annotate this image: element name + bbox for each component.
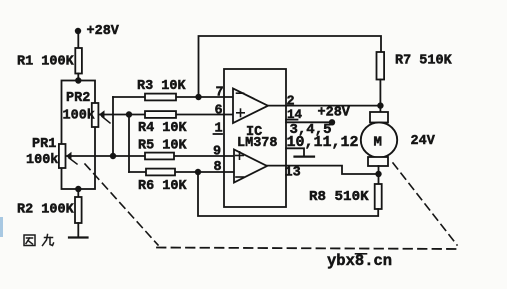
- svg-text:8: 8: [214, 160, 222, 175]
- svg-text:ybx8.cn: ybx8.cn: [327, 252, 392, 270]
- svg-text:100k: 100k: [26, 153, 58, 168]
- caption 图九 (Figure 9), hand-drawn CJK strokes: [24, 235, 54, 246]
- op-amp U1a (top): [233, 89, 268, 124]
- svg-text:R5 10K: R5 10K: [138, 139, 188, 154]
- potentiometer PR2: [63, 91, 99, 127]
- dashed mechanical link: left diagonal: [85, 164, 158, 245]
- resistor R2: [17, 197, 82, 223]
- node: output 2 / R7 / motor junction: [377, 102, 383, 108]
- wire R5 line: PR1 wiper to pin 9: [66, 155, 234, 157]
- wire R2 to ground: [77, 223, 79, 238]
- wire R4 line: PR2 wiper to pin 6: [99, 114, 233, 116]
- svg-text:LM378: LM378: [237, 136, 278, 151]
- wire R1 to node: [77, 74, 79, 81]
- PR1 wiper arrow: [66, 152, 77, 164]
- node: R1 / pot box top junction: [75, 77, 81, 83]
- wire R7 to motor node: [379, 80, 381, 113]
- svg-text:+28V: +28V: [87, 24, 120, 39]
- pin 1 label: [214, 122, 223, 137]
- pin 14 label: [286, 108, 303, 122]
- wire op-amp output pin 13 to motor bottom node: [267, 166, 379, 174]
- wire vertical branch to R6 line: [128, 115, 130, 173]
- ground (IC pins): [286, 148, 314, 156]
- resistor R3: [137, 79, 187, 100]
- wire +28V to R1: [77, 31, 79, 48]
- PR2 wiper arrow: [99, 110, 110, 123]
- svg-text:100k: 100k: [63, 109, 95, 124]
- svg-text:9: 9: [213, 145, 221, 160]
- svg-text:24V: 24V: [411, 134, 436, 149]
- resistor R5: [138, 139, 188, 160]
- dashed mechanical link: bottom run: [157, 248, 456, 250]
- svg-text:M: M: [374, 135, 382, 151]
- svg-text:R8 510K: R8 510K: [309, 189, 369, 205]
- resistor R8: [309, 184, 382, 209]
- scan artifact blue strip: [0, 217, 3, 237]
- op-amp U1b (bottom): [234, 150, 267, 183]
- svg-text:6: 6: [215, 104, 223, 119]
- svg-text:7: 7: [216, 86, 224, 101]
- IC label: [237, 125, 278, 151]
- node: +28V supply terminal (right): [329, 119, 335, 125]
- IC U1 LM378 package box: [224, 69, 286, 207]
- potentiometer PR1: [26, 137, 66, 168]
- node: PR2 wiper / R6 branch junction: [126, 111, 132, 117]
- dashed mechanical link: right diagonal: [393, 163, 457, 245]
- node: PR1 wiper / R3 branch junction: [110, 153, 116, 159]
- node: pot box bottom / R2 junction: [75, 186, 81, 192]
- wire op-amp output pin 2 to motor: [268, 105, 380, 107]
- node: pin 8 / R8 feedback junction: [195, 169, 201, 175]
- ground (left): [69, 236, 88, 238]
- svg-text:R2 100K: R2 100K: [17, 203, 75, 218]
- wire R3 line to pin 7: [113, 96, 233, 98]
- svg-text:R1 100K: R1 100K: [17, 55, 75, 70]
- resistor R6: [138, 169, 188, 194]
- +28V supply terminal (top left): [75, 24, 120, 39]
- node: motor / R8 / pin13 junction: [375, 171, 381, 177]
- resistor R4: [138, 111, 188, 136]
- wire node to R2: [77, 189, 79, 197]
- resistor R7: [377, 52, 453, 80]
- wire pot bridge box: [62, 81, 96, 190]
- wire R6 line to pin 8: [129, 171, 234, 173]
- svg-text:PR2: PR2: [66, 91, 90, 106]
- svg-text:R6 10K: R6 10K: [138, 179, 188, 194]
- wire R8 feedback to pin 8: [198, 172, 378, 216]
- wire pin 14 supply: [286, 121, 332, 123]
- watermark ybx8.cn: [327, 252, 392, 270]
- svg-text:13: 13: [285, 166, 301, 181]
- wire vertical branch to R3 line: [112, 97, 114, 156]
- svg-text:R4 10K: R4 10K: [138, 121, 188, 136]
- node: pin7 / R7 feedback junction: [195, 94, 201, 100]
- svg-text:R3 10K: R3 10K: [137, 79, 187, 94]
- wire motor bottom to R8: [378, 166, 380, 184]
- wire R7 feedback top run: [199, 36, 382, 97]
- svg-text:PR1: PR1: [32, 137, 56, 152]
- resistor R1: [17, 48, 82, 74]
- svg-text:R7 510K: R7 510K: [395, 54, 453, 69]
- motor M: [361, 112, 397, 166]
- svg-text:+28V: +28V: [318, 106, 351, 121]
